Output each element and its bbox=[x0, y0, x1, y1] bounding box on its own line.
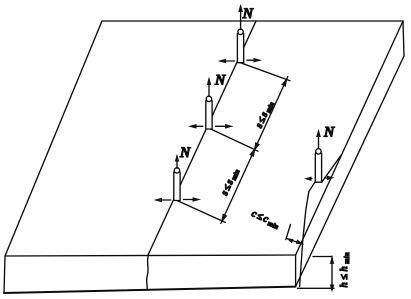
c dimension double arrow bbox=[286, 238, 303, 244]
cut vertical crack edge V1 down right face bbox=[300, 192, 309, 287]
anchor A4 load arrow N bbox=[316, 129, 321, 149]
h dimension bottom reference line bbox=[298, 287, 335, 289]
s dimension extension line from A3 bbox=[177, 201, 226, 223]
cut flag line left part from A4 base bbox=[309, 182, 315, 191]
svg-text:s≤smin: s≤smin bbox=[219, 166, 242, 197]
anchor A3 load arrow N bbox=[175, 154, 179, 169]
c dimension extension stroke bbox=[286, 225, 291, 240]
s dimension line 2 P2-P3 bbox=[221, 147, 256, 223]
slab top edge A-B bbox=[102, 20, 403, 22]
svg-text:N: N bbox=[323, 125, 335, 141]
anchor A1 cylinder bbox=[237, 29, 243, 63]
slab front left vertical edge D-D' bbox=[4, 256, 5, 293]
slab front top edge D-C bbox=[5, 255, 296, 256]
cut flag line from anchor A4 base to edge point E on B-C bbox=[322, 155, 342, 183]
slab front bottom edge D'-C' (thick) bbox=[4, 287, 296, 293]
s dimension extension line from A2 bbox=[211, 129, 258, 151]
splitting crack axis line through anchor row bbox=[148, 21, 256, 255]
anchor A2 load arrow N bbox=[207, 77, 211, 96]
anchor A3 cylinder bbox=[174, 168, 180, 201]
svg-text:h≤hmin: h≤hmin bbox=[339, 252, 351, 288]
svg-text:N: N bbox=[242, 6, 254, 22]
svg-text:c≤cmin: c≤cmin bbox=[249, 208, 281, 231]
anchor A2 shear arrows bbox=[188, 124, 234, 129]
slab front right vertical edge C-C' bbox=[295, 255, 297, 287]
slab right face bottom edge B'-C' bbox=[296, 56, 404, 287]
slab right rear vertical edge B-B' bbox=[403, 21, 404, 56]
slab top face left edge A-D bbox=[5, 21, 102, 256]
h dimension vertical line with arrows bbox=[330, 256, 335, 293]
anchor A1 shear arrows bbox=[218, 58, 263, 63]
anchor A4 cylinder bbox=[315, 149, 321, 183]
s dimension extension line from A1 bbox=[241, 63, 291, 81]
wavy crack line on front face bbox=[147, 255, 149, 290]
anchor A3 shear arrows bbox=[154, 197, 202, 202]
slab top face right edge B-C bbox=[296, 21, 403, 255]
svg-text:N: N bbox=[179, 145, 191, 161]
anchor A2 cylinder bbox=[206, 96, 212, 129]
anchor A4 shear arrows bbox=[304, 176, 335, 181]
anchor A1 load arrow N bbox=[238, 4, 243, 30]
svg-text:N: N bbox=[214, 73, 226, 89]
s dimension line 1 P1-P2 bbox=[254, 77, 288, 152]
h dimension top reference line bbox=[313, 256, 332, 258]
svg-text:s≤smin: s≤smin bbox=[254, 99, 277, 130]
